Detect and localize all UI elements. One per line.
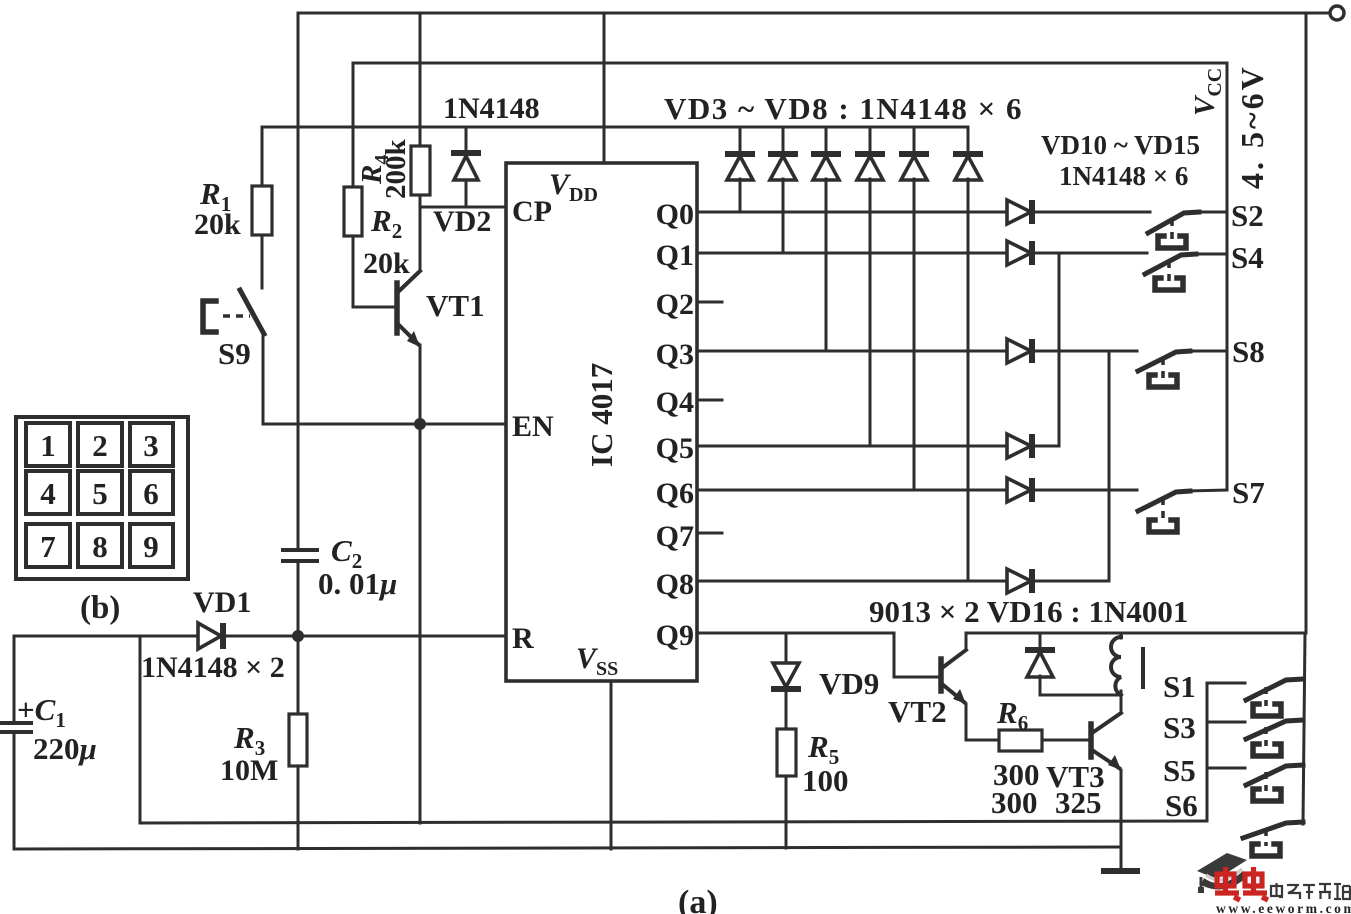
- wire: left edge vertical (C1 branch): [13, 636, 16, 722]
- diode VD15: [1007, 569, 1032, 593]
- wire: top supply rail: [299, 12, 1330, 15]
- wire: diode bus top line: [262, 126, 968, 129]
- svg-text:VD3 ~ VD8 : 1N4148 × 6: VD3 ~ VD8 : 1N4148 × 6: [664, 91, 1023, 126]
- node: EN junction: [414, 418, 426, 430]
- wire: Q4 stub: [697, 399, 722, 402]
- svg-text:S3: S3: [1163, 710, 1196, 745]
- wire: R2 drop from inner box top: [352, 63, 355, 187]
- wire: C2 bottom to reset node: [297, 561, 300, 636]
- wire: S-column vertical: [1206, 683, 1209, 821]
- keypad outer frame: [16, 417, 188, 579]
- svg-text:S4: S4: [1231, 240, 1264, 275]
- wire: R4 bottom to CP line and VT1 collector: [419, 195, 422, 270]
- wire: lower bus y=823: [140, 821, 1207, 823]
- svg-text:S5: S5: [1163, 753, 1196, 788]
- svg-text:VT1: VT1: [426, 288, 485, 323]
- svg-text:10M: 10M: [220, 754, 278, 787]
- switch S6: [1243, 822, 1303, 856]
- wire: inner Vcc box top line: [353, 62, 1227, 65]
- wire: S3 row: [1207, 721, 1245, 724]
- resistor R6: [999, 730, 1042, 751]
- diode VD13: [1007, 434, 1032, 458]
- wire: C1 bottom to ground bus: [13, 732, 16, 849]
- svg-text:VD1: VD1: [193, 586, 251, 619]
- wire: VD15 to S8 column: [1033, 580, 1109, 583]
- switch S2: [1148, 212, 1227, 248]
- svg-text:Q7: Q7: [656, 520, 694, 553]
- wire: S5 row: [1207, 767, 1245, 770]
- wire: Q2 stub: [697, 301, 722, 304]
- svg-text:VD10 ~ VD15: VD10 ~ VD15: [1041, 130, 1200, 160]
- switch S7: [1138, 490, 1227, 532]
- svg-text:Q9: Q9: [656, 619, 694, 652]
- node: reset junction dot: [292, 630, 304, 642]
- wire: VD16 bottom to relay coil bottom: [1040, 694, 1121, 697]
- IC U1 4017 box: [506, 163, 697, 681]
- svg-text:R2: R2: [370, 203, 402, 243]
- svg-text:VD9: VD9: [819, 666, 879, 701]
- svg-text:1N4148 × 2: 1N4148 × 2: [141, 651, 285, 684]
- relay K1 coil: [1111, 633, 1143, 695]
- wire: R1 bottom to switch S9: [261, 235, 264, 288]
- diode VD8: [953, 127, 983, 180]
- key 8: [78, 524, 122, 567]
- resistor R1: [252, 186, 272, 235]
- supply input terminal: [1330, 6, 1344, 20]
- wire: VD7 anode to Q6 row: [913, 179, 916, 490]
- wire: VT2 emitter to R6: [966, 704, 999, 740]
- svg-text:Q3: Q3: [656, 338, 694, 371]
- wire: VD13 to S4 column: [1033, 445, 1059, 448]
- wire: VD14 to switch S7: [1033, 489, 1137, 492]
- svg-text:EN: EN: [512, 410, 554, 443]
- diode VD1: [198, 623, 223, 649]
- svg-text:20k: 20k: [194, 208, 241, 241]
- diode VD5: [811, 127, 841, 180]
- wire: Vss from IC bottom to ground bus: [610, 681, 613, 849]
- wire: VD8 anode to Q8 row: [967, 179, 970, 581]
- svg-text:R6: R6: [996, 695, 1028, 735]
- wire: VD10 to switch S2: [1033, 211, 1150, 214]
- wire: switch common rail (right, lower): [1303, 633, 1305, 824]
- wire: Q9 row to VT2 base jog: [697, 633, 938, 677]
- diode VD12: [1007, 339, 1032, 363]
- svg-text:IC 4017: IC 4017: [584, 363, 619, 467]
- svg-text:3: 3: [143, 428, 159, 463]
- svg-text:8: 8: [92, 529, 108, 564]
- svg-text:S6: S6: [1165, 788, 1198, 823]
- svg-text:CP: CP: [512, 195, 552, 228]
- switch S1: [1246, 679, 1303, 716]
- wire: R reset line from left to IC: [14, 635, 506, 638]
- wire: bottom ground bus y=849: [14, 847, 1121, 849]
- wire: CP line to IC: [420, 206, 506, 209]
- resistor R3: [289, 636, 307, 849]
- wire: VD6 anode to Q5 row: [869, 179, 872, 446]
- capacitor C2: [283, 550, 317, 561]
- resistor R5: [777, 729, 796, 776]
- svg-text:Q4: Q4: [656, 386, 694, 419]
- svg-text:100: 100: [802, 763, 849, 798]
- wire: VT1 emitter down through EN to bottom bus: [419, 345, 422, 823]
- wire: Q7 stub: [697, 532, 722, 535]
- svg-text:+C1: +C1: [17, 692, 66, 732]
- transistor VT3: [1091, 713, 1121, 770]
- svg-text:S7: S7: [1232, 475, 1265, 510]
- svg-text:2: 2: [92, 428, 108, 463]
- wire: S8 column down to Q8 row: [1108, 351, 1111, 581]
- switch S3: [1246, 720, 1303, 756]
- wire: vertical x=420 from top rail to R4: [419, 13, 422, 146]
- svg-text:9013 × 2 VD16 : 1N4001: 9013 × 2 VD16 : 1N4001: [869, 594, 1188, 629]
- diode VD6: [855, 127, 885, 180]
- wire: S4 column down to Q5 row: [1058, 253, 1061, 446]
- wire: VD11 to switch S4: [1033, 252, 1147, 255]
- svg-text:200k: 200k: [380, 139, 412, 200]
- transistor VT1: [397, 271, 420, 347]
- wire: right supply rail down to relay rail: [1305, 13, 1308, 633]
- svg-text:325: 325: [1055, 785, 1102, 820]
- svg-text:Q0: Q0: [656, 198, 694, 231]
- wire: Vcc rail right vertical: [1226, 63, 1229, 490]
- svg-text:4. 5~6V: 4. 5~6V: [1234, 64, 1270, 189]
- svg-text:VD2: VD2: [433, 205, 491, 238]
- wire: VD3 anode to Q0 row: [739, 179, 742, 212]
- key 7: [26, 524, 70, 567]
- diode VD2: [451, 127, 481, 207]
- wire: Q6 row: [697, 489, 1008, 492]
- svg-text:6: 6: [143, 476, 159, 511]
- svg-text:1N4148: 1N4148: [443, 92, 540, 125]
- switch S8: [1138, 351, 1227, 387]
- svg-text:0. 01μ: 0. 01μ: [318, 566, 397, 601]
- resistor R2: [344, 187, 362, 236]
- key 1: [26, 423, 70, 466]
- wire: VDD drop from top rail: [603, 13, 606, 163]
- svg-text:S1: S1: [1163, 669, 1196, 704]
- svg-text:220μ: 220μ: [33, 731, 97, 766]
- diode VD11: [1007, 241, 1032, 265]
- svg-text:Q1: Q1: [656, 239, 694, 272]
- svg-text:Q6: Q6: [656, 477, 694, 510]
- svg-text:7: 7: [40, 529, 56, 564]
- switch S9: [203, 290, 264, 334]
- wire: S9 to EN line: [262, 334, 265, 424]
- wire: VD9 to R5: [785, 688, 788, 729]
- key 3: [130, 423, 173, 466]
- svg-text:1N4148 × 6: 1N4148 × 6: [1059, 161, 1188, 191]
- svg-text:300: 300: [991, 785, 1038, 820]
- wire: Q8 row: [697, 580, 1008, 583]
- key 6: [130, 471, 173, 514]
- svg-text:S2: S2: [1231, 198, 1264, 233]
- key 9: [130, 524, 173, 567]
- wire: Q0 row: [697, 211, 1008, 214]
- diode VD9: [771, 663, 801, 689]
- wire: R2 bottom to VT1 base: [353, 236, 394, 307]
- wire: VD4 anode to Q1 row: [782, 179, 785, 253]
- diode VD4: [768, 127, 798, 180]
- svg-text:Q5: Q5: [656, 432, 694, 465]
- svg-text:(b): (b): [80, 590, 120, 626]
- key 5: [78, 471, 122, 514]
- watermark text dianzi xiazaizhan: [1271, 883, 1350, 899]
- wire: VT3 collector up to relay bottom: [1120, 695, 1123, 713]
- svg-text:Q2: Q2: [656, 288, 694, 321]
- wire: VD5 anode to Q3 row: [825, 179, 828, 351]
- svg-text:S9: S9: [218, 336, 251, 371]
- svg-text:S8: S8: [1232, 334, 1265, 369]
- ground: [1101, 868, 1140, 874]
- wire: R6 to VT3 base: [1042, 739, 1091, 742]
- wire: relay supply rail: [966, 632, 1306, 635]
- svg-text:1: 1: [40, 428, 56, 463]
- wire: R5 bottom to ground bus: [785, 776, 788, 848]
- capacitor C1: [0, 723, 31, 732]
- watermark logo cap: [1197, 853, 1247, 893]
- key 2: [78, 423, 122, 466]
- diode VD14: [1007, 478, 1032, 502]
- svg-text:5: 5: [92, 476, 108, 511]
- switch S5: [1246, 765, 1303, 801]
- transistor VT2: [941, 650, 966, 704]
- wire: Q3 row: [697, 350, 1008, 353]
- diode VD10: [1007, 200, 1032, 224]
- watermark text chongchong (red): [1215, 867, 1268, 900]
- resistor R4: [411, 146, 430, 195]
- diode VD16: [1025, 633, 1055, 695]
- svg-text:9: 9: [143, 529, 159, 564]
- svg-text:20k: 20k: [363, 247, 410, 280]
- key 4: [26, 471, 70, 514]
- wire: R1 drop from bus: [261, 127, 264, 186]
- wire: EN line to IC: [263, 423, 506, 426]
- svg-text:Q8: Q8: [656, 568, 694, 601]
- wire: keypad-column vertical x=140: [139, 636, 142, 823]
- wire: Q1 row: [697, 252, 1008, 255]
- svg-text:4: 4: [40, 476, 56, 511]
- svg-text:VCC: VCC: [1189, 68, 1226, 116]
- wire: S1 row: [1207, 682, 1245, 685]
- wire: VT3 emitter down to ground: [1120, 770, 1123, 870]
- wire: VD12 to switch S8: [1033, 350, 1137, 353]
- wire: Q5 row: [697, 445, 1008, 448]
- switch S4: [1145, 254, 1227, 290]
- svg-text:R: R: [512, 622, 534, 655]
- wire: VT2 collector to relay rail: [965, 633, 968, 650]
- svg-text:VT2: VT2: [888, 694, 947, 729]
- wire: VD9 branch from Q9 row: [785, 633, 788, 662]
- wire: left main vertical from top rail to C2: [297, 13, 300, 549]
- svg-text:www.eeworm.com: www.eeworm.com: [1216, 901, 1351, 914]
- diode VD7: [899, 127, 929, 180]
- diode VD3: [725, 127, 755, 180]
- svg-text:(a): (a): [678, 884, 718, 914]
